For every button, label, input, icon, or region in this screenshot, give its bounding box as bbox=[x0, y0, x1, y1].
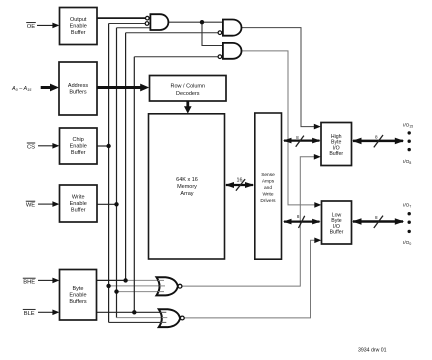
svg-text:Buffers: Buffers bbox=[69, 299, 87, 305]
svg-text:Enable: Enable bbox=[70, 201, 87, 207]
svg-text:Buffer: Buffer bbox=[71, 150, 86, 156]
wire CS to U1 input2 bbox=[109, 23, 146, 25]
node CS junction bbox=[106, 144, 110, 148]
svg-text:BHE: BHE bbox=[23, 280, 35, 286]
svg-text:Enable: Enable bbox=[70, 144, 87, 150]
svg-text:Buffer: Buffer bbox=[71, 208, 86, 214]
wire WE net vertical bbox=[97, 203, 117, 205]
wire OE buffer output to gate U1 bbox=[97, 17, 145, 19]
svg-text:Array: Array bbox=[180, 191, 193, 197]
svg-text:Enable: Enable bbox=[69, 293, 86, 299]
svg-text:Row / Column: Row / Column bbox=[171, 84, 206, 90]
bus Row/Column Decoders to Memory Array bbox=[184, 101, 192, 114]
wire CS net vertical bbox=[97, 145, 109, 147]
node WE-NOR1 junction bbox=[114, 289, 118, 293]
block Byte Enable Buffers bbox=[60, 270, 97, 321]
block Row / Column Decoders bbox=[150, 76, 227, 102]
label CS input bbox=[27, 143, 60, 150]
block Low Byte I/O Buffer bbox=[322, 201, 352, 244]
svg-text:64K x 16: 64K x 16 bbox=[176, 177, 198, 183]
svg-text:Memory: Memory bbox=[177, 184, 197, 190]
svg-text:Amps: Amps bbox=[262, 179, 275, 185]
svg-text:Buffers: Buffers bbox=[69, 90, 87, 96]
wire WE to NOR G5 input2 bbox=[117, 317, 165, 319]
label BLE input bbox=[23, 309, 60, 316]
svg-text:Buffer: Buffer bbox=[329, 151, 343, 157]
bus Address Buffers to Row/Column Decoders bbox=[97, 84, 149, 92]
wire G3 output to Low Byte buffer top input bbox=[241, 51, 315, 205]
svg-text:16: 16 bbox=[237, 178, 243, 184]
svg-text:8: 8 bbox=[375, 135, 378, 140]
svg-text:and: and bbox=[264, 185, 272, 191]
wire WE to NOR G4 input3 bbox=[117, 291, 163, 293]
wire BLE to gate G3 bubble bbox=[134, 56, 218, 58]
node WE junction bbox=[114, 202, 118, 206]
label WE input bbox=[26, 201, 60, 208]
svg-text:3934 drw 01: 3934 drw 01 bbox=[358, 347, 387, 353]
block Write Enable Buffer bbox=[60, 185, 98, 222]
svg-text:8: 8 bbox=[375, 215, 378, 220]
wire BHE to gate G2 bubble bbox=[126, 32, 218, 34]
arrowhead into High Byte buffer top input bbox=[314, 124, 321, 130]
node BLE junction bbox=[132, 310, 136, 314]
bus 8-bit Low Byte I/O to pins bbox=[352, 215, 404, 228]
arrowhead into High Byte buffer bottom input bbox=[314, 154, 321, 160]
svg-text:Chip: Chip bbox=[73, 137, 84, 143]
gate G2 AND with inverted input bbox=[218, 20, 241, 36]
svg-text:Output: Output bbox=[70, 17, 87, 23]
gate G5 NOR low byte write bbox=[159, 309, 184, 327]
wire U1 output to G2/G3 bbox=[168, 21, 223, 23]
pin dots low byte bbox=[408, 212, 411, 215]
block Sense Amps and Write Drivers bbox=[255, 113, 282, 259]
svg-text:Write: Write bbox=[72, 195, 85, 201]
svg-text:Sense: Sense bbox=[261, 172, 275, 178]
block Output Enable Buffer bbox=[60, 8, 98, 45]
svg-text:CS: CS bbox=[27, 144, 35, 150]
node U1 output junction bbox=[200, 20, 204, 24]
label BHE input bbox=[23, 278, 60, 286]
svg-text:8: 8 bbox=[296, 135, 299, 140]
svg-text:Address: Address bbox=[68, 83, 88, 89]
svg-text:Byte: Byte bbox=[72, 286, 83, 292]
wire WE to U1 input3 bbox=[117, 27, 152, 29]
svg-text:8: 8 bbox=[297, 214, 300, 219]
block 64K x 16 Memory Array bbox=[149, 114, 225, 259]
node BHE junction bbox=[123, 278, 127, 282]
label OE input bbox=[26, 23, 59, 30]
gate U1 AND with inverted inputs bbox=[145, 14, 168, 30]
svg-text:Write: Write bbox=[262, 192, 273, 198]
label A0-A15 input bbox=[11, 84, 59, 93]
bus 8-bit Sense Amps to Low Byte I/O Buffer bbox=[283, 214, 321, 228]
wire NOR G5 output to Low Byte buffer bottom input bbox=[184, 240, 315, 318]
arrowhead into Low Byte buffer bottom input bbox=[314, 238, 321, 244]
svg-text:Enable: Enable bbox=[70, 24, 87, 30]
svg-text:Decoders: Decoders bbox=[176, 91, 200, 97]
block High Byte I/O Buffer bbox=[321, 123, 352, 166]
wire G2 output to High Byte buffer top input bbox=[241, 28, 314, 127]
block Chip Enable Buffer bbox=[60, 128, 98, 164]
bus 8-bit Sense Amps to High Byte I/O Buffer bbox=[283, 135, 321, 147]
block Address Buffers bbox=[59, 62, 97, 115]
bus 16-bit Memory Array to Sense Amps bbox=[225, 178, 254, 191]
gate G3 AND with inverted input bbox=[218, 43, 241, 59]
pin dots high byte bbox=[408, 131, 411, 134]
wire CS to NOR G4 input2 bbox=[109, 285, 163, 287]
svg-text:BLE: BLE bbox=[24, 311, 35, 317]
svg-text:Buffer: Buffer bbox=[330, 230, 344, 236]
node CS-NOR1 junction bbox=[106, 284, 110, 288]
wire CS to NOR G5 input3 bbox=[109, 321, 164, 323]
svg-text:Drivers: Drivers bbox=[260, 198, 276, 204]
wire NOR G4 output to High Byte buffer bottom input bbox=[182, 157, 315, 286]
gate G4 NOR high byte write bbox=[157, 277, 182, 295]
wire BLE net bbox=[97, 311, 165, 313]
svg-text:Buffer: Buffer bbox=[71, 30, 86, 36]
bus 8-bit High Byte I/O to pins bbox=[352, 135, 404, 148]
svg-text:WE: WE bbox=[26, 203, 35, 209]
svg-text:OE: OE bbox=[27, 24, 36, 30]
arrowhead into Low Byte buffer top input bbox=[314, 202, 321, 208]
wire BHE net bbox=[97, 279, 126, 281]
